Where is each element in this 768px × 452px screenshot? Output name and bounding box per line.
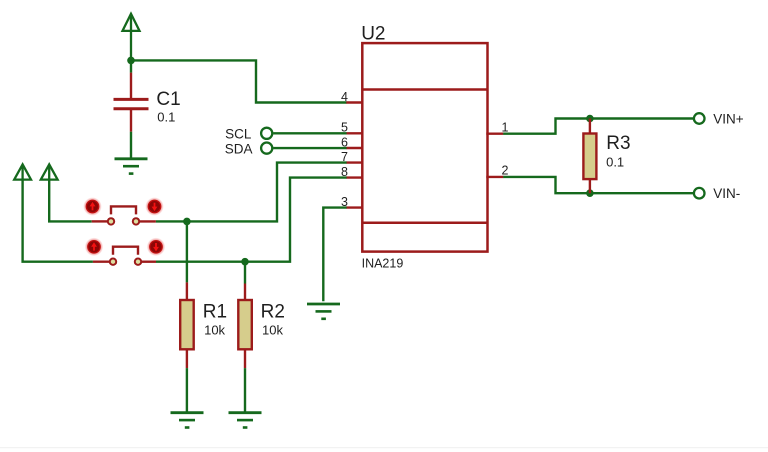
pin 8 stub (346, 176, 363, 178)
svg-text:10k: 10k (204, 323, 225, 338)
SW2 toggle actuator up (85, 238, 103, 256)
wire pin 2 to VIN- (503, 177, 693, 193)
node C (junction net2 / R2) (241, 258, 249, 266)
wire net2 right: SW2 to junction to pin 8 (156, 178, 347, 262)
svg-text:0.1: 0.1 (157, 109, 175, 124)
svg-text:SDA: SDA (225, 141, 253, 156)
SW1 toggle actuator down (145, 197, 163, 215)
wire pin 1 to VIN+ (503, 119, 693, 134)
svg-text:4: 4 (341, 90, 348, 104)
SW2 toggle actuator down (147, 238, 165, 256)
ground (below C1) (115, 159, 148, 174)
svg-text:R2: R2 (261, 301, 285, 322)
SW1 toggle actuator up (83, 197, 101, 215)
pin 4 stub (346, 101, 363, 103)
node D (junction R3 top) (586, 115, 594, 123)
svg-text:SCL: SCL (225, 126, 252, 141)
wire net1 left: power to switch SW1 (49, 180, 91, 222)
pin 5 stub (346, 132, 363, 134)
svg-text:C1: C1 (156, 89, 180, 110)
power symbol (second, feeds upper switch row) (41, 164, 58, 180)
ground (below pin 3) (307, 304, 340, 319)
ground (below R1) (171, 413, 204, 428)
wire net2 left: power to switch SW2 (23, 180, 93, 262)
svg-text:U2: U2 (361, 24, 385, 45)
node A (junction C1 top / pin4 wire) (127, 57, 135, 65)
pin 7 stub (346, 161, 363, 163)
window edge line (bottom) (0, 447, 768, 448)
IC U2 body (362, 43, 487, 252)
resistor R2 (238, 262, 252, 413)
svg-text:R3: R3 (606, 133, 630, 154)
pin 6 stub (346, 147, 363, 149)
power symbol (left, feeds lower switch row) (14, 164, 31, 180)
svg-text:0.1: 0.1 (606, 155, 624, 170)
terminal VIN+ (694, 113, 705, 124)
pin 1 stub (486, 132, 503, 134)
svg-text:2: 2 (502, 164, 509, 178)
power symbol VCC (above C1) (123, 14, 140, 61)
switch SW1 (upper pushbutton) (92, 206, 156, 224)
svg-text:10k: 10k (262, 323, 283, 338)
wire SDA to pin 6 (273, 147, 346, 149)
switch SW2 (lower pushbutton) (93, 247, 156, 265)
terminal SDA (261, 143, 272, 154)
pin 2 stub (486, 176, 503, 178)
svg-text:1: 1 (502, 120, 509, 134)
wire SCL to pin 5 (273, 132, 346, 134)
terminal VIN- (694, 188, 705, 199)
resistor R3 (583, 119, 596, 194)
node E (junction R3 bottom) (586, 189, 594, 197)
terminal SCL (261, 128, 272, 139)
ground (below R2) (229, 413, 262, 428)
wire pin4 net: junction to U2 pin 4 (131, 60, 347, 102)
resistor R1 (180, 221, 194, 412)
pin 3 stub (346, 206, 363, 208)
capacitor C1 (114, 60, 149, 158)
wire net1 right: SW1 to junction to pin 7 (156, 163, 347, 222)
node B (junction net1 / R1) (183, 218, 191, 226)
svg-text:R1: R1 (203, 301, 227, 322)
svg-text:INA219: INA219 (362, 256, 404, 270)
svg-text:VIN-: VIN- (713, 186, 740, 201)
wire pin 3 to ground (323, 208, 346, 302)
svg-text:VIN+: VIN+ (713, 112, 744, 127)
